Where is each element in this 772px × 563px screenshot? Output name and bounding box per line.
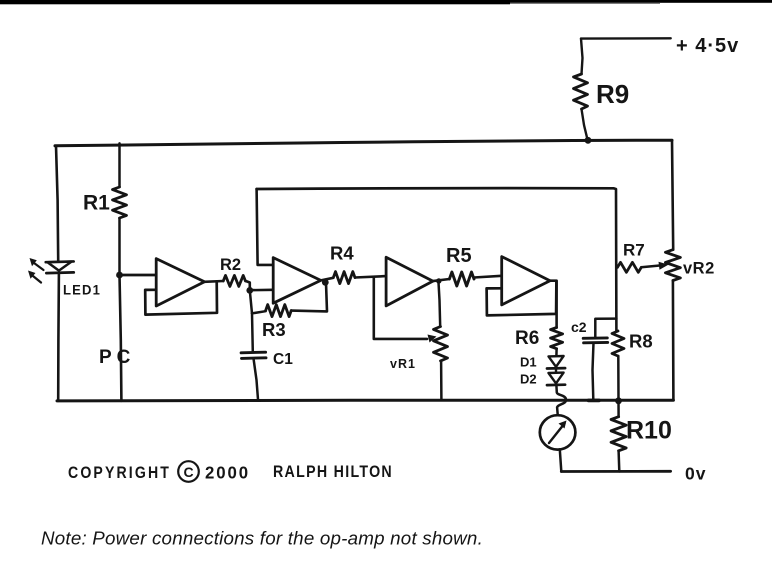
wire R3 to output node: [291, 283, 327, 312]
power +4.5v label: [676, 35, 739, 57]
svg-text:Note: Power connections for t: Note: Power connections for the op-amp n…: [41, 529, 483, 549]
wire D1 to D2: [555, 369, 557, 373]
diode D1: [547, 356, 565, 369]
wire U3 gain drop: [374, 277, 427, 339]
wire node to R3: [250, 290, 252, 313]
wire R5 to U4 input: [474, 276, 502, 278]
wire U1 feedback loop: [145, 282, 217, 315]
op-amp U2: [273, 258, 321, 304]
svg-text:vR2: vR2: [683, 260, 715, 278]
label R7: [623, 241, 645, 260]
svg-text:vR1: vR1: [390, 357, 416, 371]
wire +4.5v feed: [581, 37, 671, 40]
wire top bus: [55, 140, 672, 146]
op-amp U3: [386, 257, 433, 306]
wire node to U1 input: [120, 274, 157, 277]
svg-text:0v: 0v: [685, 464, 706, 484]
label VR2: [683, 260, 715, 278]
wire 0v line: [561, 470, 670, 473]
node supply junction: [585, 137, 592, 144]
potentiometer VR2: [665, 250, 680, 281]
wire R10 to 0v: [617, 451, 620, 472]
svg-text:c2: c2: [571, 319, 587, 335]
label R5: [446, 245, 472, 267]
wire R3 left lead: [252, 311, 266, 313]
resistor R7: [618, 262, 642, 272]
wire R2 to node: [245, 281, 249, 290]
wire R8 to bottom bus: [617, 356, 620, 400]
wire node to U2 input: [250, 288, 273, 291]
resistor R5: [449, 272, 474, 286]
node U2 output junction: [322, 279, 329, 286]
wire U4 output: [550, 281, 557, 328]
wire left rail upper: [56, 146, 58, 261]
label R3: [262, 319, 286, 340]
svg-text:R4: R4: [330, 243, 354, 264]
label R6: [515, 328, 539, 349]
wire R9 to bus: [582, 109, 588, 140]
wire VR1 to bottom bus: [440, 361, 443, 400]
wire R7 to VR2 wiper: [641, 265, 661, 267]
wire U3 output: [433, 279, 450, 281]
resistor R8: [612, 331, 624, 356]
wire meter to 0v: [560, 449, 562, 471]
svg-text:R9: R9: [596, 79, 629, 109]
text note: [41, 529, 483, 549]
svg-text:R2: R2: [220, 256, 241, 274]
svg-text:R3: R3: [262, 319, 286, 340]
label 0v: [685, 464, 706, 484]
resistor R1: [113, 187, 127, 218]
wire U2 top input: [257, 189, 274, 265]
diode D2: [547, 373, 565, 386]
wire bottom bus: [57, 399, 673, 403]
label LED1: [63, 283, 101, 298]
svg-text:C1: C1: [273, 351, 293, 368]
wire bus to R10: [617, 401, 620, 417]
label PC: [99, 347, 131, 368]
label R4: [330, 243, 354, 264]
capacitor C2: [583, 338, 608, 343]
resistor R4: [333, 272, 355, 284]
svg-text:P C: P C: [99, 347, 131, 368]
svg-text:R1: R1: [83, 192, 110, 215]
label C2: [571, 319, 587, 335]
wire R1 to input node: [118, 218, 121, 275]
node bottom bus junction: [615, 397, 622, 404]
label R9: [596, 79, 629, 109]
svg-text:R7: R7: [623, 241, 645, 260]
label R2: [220, 256, 241, 274]
node input junction: [116, 272, 123, 279]
potentiometer VR1: [434, 327, 448, 361]
wire LED to bottom bus: [57, 273, 60, 400]
wiper arrow into VR1: [428, 335, 437, 343]
svg-text:R6: R6: [515, 328, 539, 349]
resistor R3: [266, 305, 292, 317]
op-amp U4: [502, 257, 550, 305]
resistor R9: [574, 74, 588, 109]
svg-text:COPYRIGHT: COPYRIGHT: [68, 464, 171, 482]
wire second bus: [257, 187, 614, 191]
LED LED1: [46, 261, 74, 273]
wire D2 to meter crossing bus: [556, 385, 566, 414]
wire feedback rail drop: [613, 188, 616, 331]
resistor R10: [611, 417, 626, 451]
wire C1 to bottom bus: [254, 358, 259, 400]
svg-text:+ 4·5v: + 4·5v: [676, 35, 739, 57]
svg-text:R5: R5: [446, 245, 472, 267]
wire U2 output: [321, 278, 334, 281]
capacitor C1: [241, 352, 266, 358]
wire right rail lower: [672, 281, 675, 401]
wire U3 output to VR1: [438, 281, 440, 327]
wire C2 top lead: [595, 319, 616, 339]
label R8: [629, 331, 653, 352]
svg-text:LED1: LED1: [63, 283, 101, 298]
label VR1: [390, 357, 416, 371]
wire supply drop: [581, 39, 583, 74]
wire R6 to D1: [555, 349, 558, 357]
meter M1: [540, 415, 576, 449]
svg-text:R10: R10: [626, 417, 672, 445]
label D2: [520, 372, 537, 387]
wire R4 to U3 input: [355, 276, 386, 277]
resistor R6: [551, 328, 563, 349]
wiper arrow into VR2: [659, 262, 669, 270]
LED light arrows: [28, 258, 44, 283]
wire bus to R1: [118, 143, 121, 187]
wire right rail upper: [672, 140, 673, 250]
label C1: [273, 351, 293, 368]
svg-text:2000: 2000: [205, 463, 250, 483]
wire C2 to bottom bus: [589, 343, 600, 401]
svg-text:D1: D1: [520, 355, 537, 370]
label D1: [520, 355, 537, 370]
op-amp U1: [156, 259, 204, 306]
resistor R2: [223, 275, 245, 286]
svg-text:D2: D2: [520, 372, 537, 387]
wire U4 feedback loop: [487, 281, 557, 315]
wire U1 output: [205, 280, 224, 283]
svg-text:R8: R8: [629, 331, 653, 352]
svg-text:RALPH HILTON: RALPH HILTON: [273, 463, 393, 481]
svg-text:C: C: [183, 464, 193, 480]
text copyright: [68, 461, 393, 482]
photocell PC wire: [120, 275, 122, 401]
node stage2 input junction: [246, 287, 253, 294]
node U3 output junction: [436, 278, 441, 283]
wire C1 top lead: [251, 313, 254, 351]
label R1: [83, 192, 110, 215]
label R10: [626, 417, 672, 445]
